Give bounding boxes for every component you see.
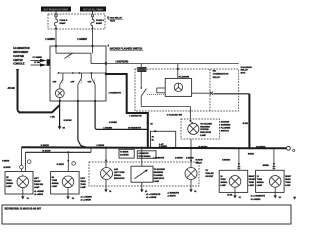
svg-text:N BK/RD: N BK/RD xyxy=(222,159,231,161)
connector blob at box edge xyxy=(47,59,51,66)
fuse F5 xyxy=(54,17,57,29)
svg-text:CENTER: CENTER xyxy=(13,60,23,62)
pilot internal label xyxy=(200,122,212,137)
svg-text:N BK/W: N BK/W xyxy=(42,151,51,153)
svg-text:-N RD: -N RD xyxy=(242,123,248,125)
svg-text:SIGNAL: SIGNAL xyxy=(114,174,122,177)
svg-text:z1 +4 RD/BK/YE: z1 +4 RD/BK/YE xyxy=(146,193,161,196)
svg-text:8AMP: 8AMP xyxy=(60,22,67,25)
lamp D ground xyxy=(274,187,282,199)
svg-text:REVISIONS: B MAR 91-89 967: REVISIONS: B MAR 91-89 967 xyxy=(5,207,42,211)
svg-text:8AMP: 8AMP xyxy=(96,22,103,25)
instrument cluster box (dashed) xyxy=(89,162,199,186)
wire bus to lamp1 terminal b xyxy=(25,152,27,171)
pin tick right edge y63.5 xyxy=(105,62,107,64)
far right ground xyxy=(293,197,296,200)
hazard flasher switch box S1 xyxy=(50,46,106,101)
cluster gauge box xyxy=(131,166,153,182)
svg-text:LT GN: LT GN xyxy=(34,62,40,64)
svg-text:CLUSTER: CLUSTER xyxy=(120,155,129,157)
svg-text:LAMP: LAMP xyxy=(200,134,206,137)
svg-text:SIGNAL: SIGNAL xyxy=(52,182,60,185)
svg-text:N BK/W: N BK/W xyxy=(4,167,11,169)
pin tick top right xyxy=(92,45,94,47)
svg-text:SIGNAL: SIGNAL xyxy=(257,181,265,184)
lamp C xyxy=(229,176,241,188)
svg-text:RELAY: RELAY xyxy=(213,76,221,79)
svg-text:HOT AT ALL TIMES: HOT AT ALL TIMES xyxy=(83,8,104,11)
svg-text:BOX: BOX xyxy=(110,21,115,23)
svg-text:4 BK/RD: 4 BK/RD xyxy=(175,157,183,160)
svg-text:N RD/W: N RD/W xyxy=(196,160,203,162)
pilot lamp in switch xyxy=(55,89,64,98)
lamp E1 xyxy=(62,176,74,188)
svg-text:1 GN/RD: 1 GN/RD xyxy=(77,38,87,41)
svg-text:1 BK/W: 1 BK/W xyxy=(96,145,105,147)
junction xyxy=(190,147,192,149)
svg-text:FRONT: FRONT xyxy=(249,179,256,181)
hazard bus wire xyxy=(22,147,287,148)
relay switch blade xyxy=(140,87,164,96)
aux connector mark xyxy=(293,149,295,151)
svg-text:LAMP: LAMP xyxy=(257,184,263,187)
switch blade 1 xyxy=(60,73,63,85)
pilot tick xyxy=(190,120,194,123)
pin tick right edge y74 xyxy=(105,73,107,76)
lamp E5 ground xyxy=(21,188,30,200)
combination relay label xyxy=(213,71,229,79)
svg-text:COMBINATION: COMBINATION xyxy=(213,73,229,76)
lamp D labels xyxy=(257,176,265,187)
svg-text:RELAY: RELAY xyxy=(241,69,249,72)
lamp C labels xyxy=(220,176,228,187)
svg-text:TRAILER: TRAILER xyxy=(205,172,214,175)
wire from hot-at-all-times bar xyxy=(92,12,94,15)
flasher output wire xyxy=(192,92,210,94)
wire bus to lamp C xyxy=(237,148,240,170)
junction xyxy=(147,128,149,130)
wire bus to lamp2 xyxy=(68,152,70,171)
svg-text:E5: E5 xyxy=(6,177,8,179)
right front turn signal lamp box xyxy=(219,170,248,192)
svg-text:z2 +4 BK/W: z2 +4 BK/W xyxy=(81,198,91,201)
wire blade2 to box bottom xyxy=(77,85,79,101)
svg-text:FLASHER: FLASHER xyxy=(154,174,164,177)
svg-text:z1 +4 RD/BK/YE: z1 +4 RD/BK/YE xyxy=(251,195,266,198)
wire pilot to cluster xyxy=(190,139,192,167)
svg-text:N BK/RD: N BK/RD xyxy=(256,147,266,149)
svg-text:FLASHER: FLASHER xyxy=(221,126,231,129)
svg-text:NO: NO xyxy=(213,71,217,73)
svg-text:INDICATOR: INDICATOR xyxy=(200,131,211,134)
svg-text:N BK/W: N BK/W xyxy=(2,160,9,162)
internal wire to right output xyxy=(91,53,106,63)
svg-text:1 RD/BK/YE: 1 RD/BK/YE xyxy=(153,158,164,160)
fuse F8 value label xyxy=(96,20,104,25)
svg-text:E1: E1 xyxy=(52,177,54,179)
wire blade1 to lamp xyxy=(59,85,61,89)
svg-text:CLUSTER: CLUSTER xyxy=(13,56,24,58)
pilot name label right xyxy=(221,121,231,133)
junction xyxy=(58,72,60,74)
right turn indicator lamp xyxy=(185,168,197,180)
svg-text:WARNING: WARNING xyxy=(154,171,164,174)
lamp E5 xyxy=(17,175,29,188)
svg-text:RIGHT: RIGHT xyxy=(249,176,256,178)
illumination note text xyxy=(13,47,30,66)
svg-text:TURN: TURN xyxy=(220,179,226,181)
svg-text:z1 +RD/BK: z1 +RD/BK xyxy=(34,191,44,193)
arrow connector 2 xyxy=(31,63,51,66)
switch name label xyxy=(108,45,143,51)
cluster label A4/2 xyxy=(114,168,125,180)
bus B end tick xyxy=(90,148,92,152)
svg-text:10: 10 xyxy=(220,176,222,178)
svg-text:N BK/W: N BK/W xyxy=(41,145,50,147)
svg-text:N BK/RD: N BK/RD xyxy=(198,147,208,149)
cluster gauge feed xyxy=(141,148,143,166)
svg-text:BK/RD: BK/RD xyxy=(248,154,255,156)
cluster bottom labels xyxy=(146,191,180,199)
left front turn signal lamp box E5 xyxy=(5,172,33,195)
svg-text:LAMP: LAMP xyxy=(249,184,255,187)
connector ring G xyxy=(72,162,76,166)
thick hazard feed down xyxy=(248,94,250,149)
wire blade3 to box bottom xyxy=(94,85,96,101)
lamp E1 name right xyxy=(80,178,86,189)
svg-text:1 RD/BK: 1 RD/BK xyxy=(109,122,118,124)
hazard pilot lamp xyxy=(188,123,199,134)
wire to hazard feed xyxy=(213,93,249,95)
junction xyxy=(248,147,250,149)
arrow connector 1 xyxy=(31,59,51,62)
svg-text:LAMP: LAMP xyxy=(52,185,58,188)
label box TO INSTRUMENT xyxy=(119,148,134,158)
svg-text:LAMP: LAMP xyxy=(220,184,226,187)
svg-text:BK/RD: BK/RD xyxy=(263,165,270,167)
flasher coil loop xyxy=(157,88,165,93)
svg-text:INDICATOR: INDICATOR xyxy=(114,177,125,180)
svg-text:+4 BK/YE: +4 BK/YE xyxy=(167,195,176,198)
pin tick bottom 1 xyxy=(59,100,61,102)
svg-text:N BK/W: N BK/W xyxy=(64,120,73,122)
connector ring E2a xyxy=(27,160,31,164)
svg-text:FUSE 5: FUSE 5 xyxy=(60,20,68,22)
fuse F5 value label xyxy=(60,20,68,25)
svg-text:CONSOLE: CONSOLE xyxy=(13,64,25,66)
wire 1 BK/YE/RD to relay xyxy=(106,63,239,65)
left turn indicator lamp xyxy=(101,168,113,180)
svg-text:TURN: TURN xyxy=(285,182,291,184)
svg-text:HOT IN RUN OR START: HOT IN RUN OR START xyxy=(44,8,69,11)
connector circle xyxy=(91,15,93,17)
svg-text:LAMP: LAMP xyxy=(154,180,160,183)
svg-text:FUSE 8: FUSE 8 xyxy=(96,20,104,22)
svg-text:TURN: TURN xyxy=(52,180,58,182)
svg-text:2 BK: 2 BK xyxy=(50,117,55,119)
svg-text:TURN: TURN xyxy=(249,182,255,184)
lamp E5 labels xyxy=(6,177,14,188)
lamp E1 ground xyxy=(66,188,75,200)
junction xyxy=(238,147,240,149)
relay name label right xyxy=(241,66,252,75)
svg-text:5 HAZARD: 5 HAZARD xyxy=(241,66,252,69)
lamp E5 name right xyxy=(34,178,44,189)
lamp C ground xyxy=(233,187,241,199)
internal wire top xyxy=(56,46,93,53)
svg-text:LEFT: LEFT xyxy=(80,178,86,180)
svg-text:REAR: REAR xyxy=(285,178,291,181)
cluster ground 2 xyxy=(140,182,148,193)
illumination feed wire left xyxy=(16,69,60,112)
cluster top labels xyxy=(153,157,194,160)
fuse box (dashed) xyxy=(48,14,105,29)
svg-text:HAZARD FLASHER SWITCH: HAZARD FLASHER SWITCH xyxy=(110,48,143,51)
svg-text:A4/2: A4/2 xyxy=(114,168,118,171)
svg-text:N RD/BK/YE: N RD/BK/YE xyxy=(128,127,141,129)
svg-text:TURN: TURN xyxy=(257,179,263,181)
junction xyxy=(72,72,74,74)
wire switch to turn buses xyxy=(78,101,87,147)
svg-text:HAZARD: HAZARD xyxy=(221,121,230,124)
svg-text:LAMP: LAMP xyxy=(285,184,291,187)
fuse box name label xyxy=(108,17,124,23)
connector circle xyxy=(55,15,57,17)
svg-text:BOX: BOX xyxy=(241,72,246,74)
connector ring E4 xyxy=(20,165,24,169)
svg-text:1 BK/RD/YE: 1 BK/RD/YE xyxy=(129,115,142,117)
svg-text:SIGNAL: SIGNAL xyxy=(6,182,14,185)
wire lamp to box bottom xyxy=(59,98,61,101)
junction xyxy=(79,72,81,74)
switch blade 3 xyxy=(92,73,96,85)
lamp D xyxy=(269,176,281,188)
combination relay box (dashed) xyxy=(135,69,239,111)
relay box divider xyxy=(209,69,211,111)
lamp E1 labels xyxy=(52,177,60,188)
wire switch pin4 down xyxy=(59,101,61,126)
svg-text:1 RD/BK: 1 RD/BK xyxy=(103,127,112,129)
svg-text:INDICATOR: INDICATOR xyxy=(154,177,165,180)
svg-text:RELAY: RELAY xyxy=(196,162,203,165)
power bar HOT AT ALL TIMES xyxy=(80,7,106,12)
svg-text:REAR: REAR xyxy=(80,180,86,183)
flasher symbol U1 xyxy=(174,83,182,91)
svg-text:4 RD/BK/YE: 4 RD/BK/YE xyxy=(138,152,149,155)
labels below lamp boxes left xyxy=(81,195,93,201)
svg-text:TURN SIG: TURN SIG xyxy=(34,184,44,186)
svg-text:LEFT TURN: LEFT TURN xyxy=(114,172,125,174)
wire bus to lamp1 terminal a xyxy=(21,147,23,171)
cluster left indicator feed xyxy=(105,148,107,168)
labels between lamp boxes xyxy=(34,191,44,196)
svg-text:30: 30 xyxy=(152,137,154,139)
svg-text:TO HAZARD: TO HAZARD xyxy=(154,168,166,171)
power bar HOT IN RUN OR START xyxy=(41,7,71,12)
svg-text:1 RD/BK/YE: 1 RD/BK/YE xyxy=(109,92,122,94)
svg-text:LT GN/RD: LT GN/RD xyxy=(33,57,43,59)
cluster ground 1 xyxy=(104,180,112,193)
svg-text:FRONT: FRONT xyxy=(34,181,41,183)
cluster ground 3 xyxy=(189,180,197,193)
svg-text:LAMP: LAMP xyxy=(34,186,40,189)
svg-text:31 BK: 31 BK xyxy=(227,194,233,196)
connector block A4/7 xyxy=(151,130,176,148)
connector blob 30 xyxy=(147,122,149,125)
flasher unit box xyxy=(165,78,191,96)
svg-text:1 GN/BK: 1 GN/BK xyxy=(45,38,55,41)
fuse F8 xyxy=(91,17,94,29)
junction xyxy=(141,147,143,149)
svg-text:SWITCH: SWITCH xyxy=(221,130,229,132)
junction xyxy=(67,151,69,153)
junction xyxy=(90,72,92,74)
svg-text:1 BK/YE/RD: 1 BK/YE/RD xyxy=(115,62,128,64)
cluster gauge label xyxy=(154,168,166,183)
wire bus to lamp D xyxy=(272,148,275,170)
thick wire switch output to instrument feed xyxy=(106,74,148,148)
revisions bar xyxy=(2,205,291,224)
svg-text:-35 GN: -35 GN xyxy=(7,88,15,90)
right rear turn signal lamp box xyxy=(256,170,285,192)
svg-text:INSTRUMENT: INSTRUMENT xyxy=(13,52,29,54)
svg-text:SIGNAL: SIGNAL xyxy=(220,181,228,184)
svg-text:WARNING: WARNING xyxy=(221,124,231,127)
svg-text:LAMP: LAMP xyxy=(6,185,12,188)
internal switch blade top xyxy=(65,53,74,59)
flasher feed wire xyxy=(177,64,179,79)
labels below lamp D xyxy=(251,195,266,201)
svg-text:TO INSTR: TO INSTR xyxy=(120,152,129,154)
bus end connector circle xyxy=(287,146,291,150)
lamp D name right xyxy=(285,176,292,187)
svg-text:z2 +4 BK/W: z2 +4 BK/W xyxy=(146,196,156,199)
svg-text:1 HAZARD SW: 1 HAZARD SW xyxy=(167,114,183,117)
pin tick top left xyxy=(55,45,57,47)
svg-text:31 +BK/RD: 31 +BK/RD xyxy=(251,199,261,201)
terminal arrow 35 xyxy=(58,126,62,129)
svg-text:SOCKET: SOCKET xyxy=(205,176,214,178)
svg-text:TURN: TURN xyxy=(80,184,86,186)
svg-text:TURN SIGNAL: TURN SIGNAL xyxy=(138,155,151,158)
junction xyxy=(105,147,107,149)
wire switch pin3 down-right xyxy=(95,101,148,129)
trailer note xyxy=(205,170,214,178)
svg-text:z1 +4 RD/BK: z1 +4 RD/BK xyxy=(81,195,93,198)
wire relay switch to pilot lamp xyxy=(141,96,190,119)
svg-text:FLASHER: FLASHER xyxy=(179,76,190,79)
relay coil component xyxy=(138,64,147,88)
left turn bus wire xyxy=(26,151,92,153)
svg-text:1 BK/RD: 1 BK/RD xyxy=(186,157,194,159)
wire fuse8 to switch xyxy=(92,29,94,46)
label box turn signal feed xyxy=(137,151,156,159)
pin tick bottom 2 xyxy=(77,100,79,102)
left rear turn signal lamp box E1 xyxy=(51,172,80,195)
lamp C name right xyxy=(249,176,256,187)
hazard pilot box (dashed) xyxy=(181,119,220,139)
svg-text:TO HAZARD: TO HAZARD xyxy=(200,122,212,125)
wire from run/start bar xyxy=(55,12,57,15)
svg-text:LAMP: LAMP xyxy=(80,186,86,189)
svg-text:ILLUMINATION: ILLUMINATION xyxy=(13,47,30,50)
internal bus xyxy=(59,72,107,74)
svg-text:SYSTEM: SYSTEM xyxy=(200,129,209,131)
wire fuse5 to switch xyxy=(55,29,57,46)
svg-text:WARNING: WARNING xyxy=(200,125,210,128)
svg-text:RIGHT: RIGHT xyxy=(285,176,292,178)
svg-text:+4 RD/BK/YE: +4 RD/BK/YE xyxy=(167,191,179,194)
pin tick bottom 3 xyxy=(94,100,96,102)
svg-text:TURN: TURN xyxy=(6,180,12,182)
svg-text:z2 +BK/W: z2 +BK/W xyxy=(34,194,43,196)
switch blade 2 xyxy=(78,73,82,85)
junction xyxy=(77,147,79,149)
svg-text:11: 11 xyxy=(257,176,259,178)
svg-text:N BK/W: N BK/W xyxy=(57,164,64,166)
inline connector X xyxy=(210,91,213,95)
